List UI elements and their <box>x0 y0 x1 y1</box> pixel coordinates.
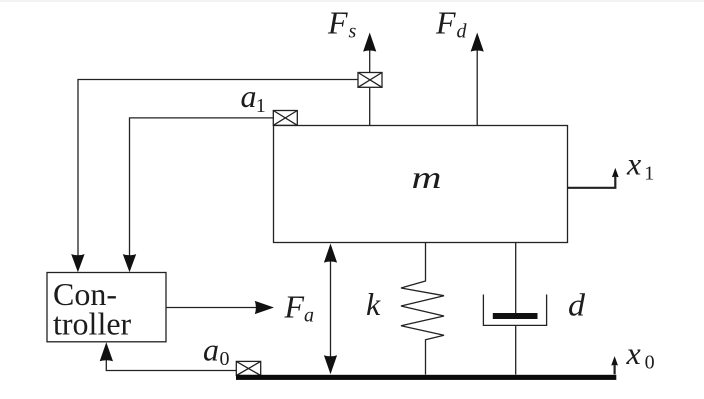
arrowhead into controller bottom <box>100 342 113 361</box>
svg-text:F: F <box>435 5 456 41</box>
wire a0-sensor to controller <box>106 360 236 371</box>
wire a1-sensor to controller <box>130 118 274 256</box>
svg-text:a: a <box>241 78 257 114</box>
svg-text:F: F <box>284 289 305 325</box>
ground line <box>236 375 616 380</box>
damper piston <box>493 313 538 319</box>
arrowhead Fa <box>255 301 274 314</box>
arrowhead down at ground <box>324 355 337 374</box>
damper rod upper <box>515 243 517 317</box>
arrowhead x1 <box>612 168 619 177</box>
svg-text:0: 0 <box>220 348 230 370</box>
sensor box Fs <box>358 73 382 88</box>
double arrow Fa force line <box>330 258 332 358</box>
wire Fd vertical <box>476 50 478 126</box>
arrowhead x0 <box>611 356 618 365</box>
svg-text:k: k <box>366 286 381 322</box>
x1 position marker <box>568 175 616 188</box>
spring k <box>401 243 444 375</box>
damper cup <box>483 295 546 326</box>
arrowhead into controller top right <box>123 254 136 272</box>
arrowhead up at mass bottom <box>324 244 337 263</box>
svg-text:a: a <box>203 331 219 367</box>
svg-text:1: 1 <box>644 162 654 184</box>
wire Fs vertical <box>369 50 371 126</box>
arrowhead into controller top left <box>71 254 84 272</box>
damper rod lower <box>515 325 517 374</box>
svg-text:d: d <box>457 21 468 43</box>
svg-text:0: 0 <box>645 352 655 374</box>
svg-text:m: m <box>412 159 442 195</box>
wire Fs-sensor to controller <box>78 80 358 257</box>
svg-text:d: d <box>568 287 586 323</box>
controller box <box>47 273 166 342</box>
arrowhead Fd <box>471 33 484 52</box>
svg-text:F: F <box>327 5 348 41</box>
sensor box a1 <box>273 111 297 126</box>
mass block m <box>274 126 568 243</box>
sensor box a0 <box>236 361 260 375</box>
svg-text:a: a <box>304 305 314 327</box>
top edge strip <box>0 0 704 2</box>
svg-text:x: x <box>626 335 641 371</box>
svg-text:troller: troller <box>53 306 132 342</box>
svg-text:x: x <box>626 145 641 181</box>
svg-text:s: s <box>349 21 357 43</box>
x0 position marker <box>613 364 615 374</box>
arrowhead Fs <box>363 33 376 52</box>
svg-text:1: 1 <box>256 95 266 117</box>
wire Fa output <box>166 307 256 309</box>
